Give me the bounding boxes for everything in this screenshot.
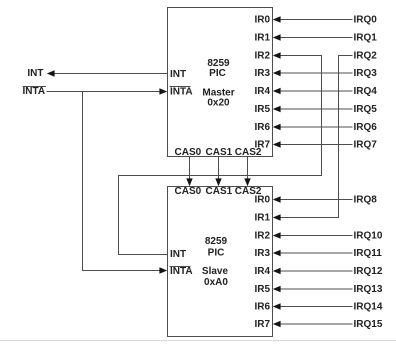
svg-text:IR3: IR3 — [254, 68, 270, 79]
svg-text:IRQ10: IRQ10 — [354, 231, 383, 242]
U1 pin labels IR0-IR7 — [254, 15, 270, 151]
svg-text:IR6: IR6 — [254, 122, 270, 133]
wire INTA from CPU to U1 with right arrowhead — [47, 88, 168, 94]
svg-text:INTA: INTA — [170, 87, 193, 98]
wire IRQ10 to U2 IR2 with arrowhead — [273, 232, 353, 238]
U1 value label 8259 PIC — [207, 58, 230, 79]
U2 pin label INTA (active low, overline) — [170, 266, 193, 277]
svg-text:CAS0: CAS0 — [175, 186, 202, 197]
U2 pin labels CAS0 CAS1 CAS2 — [175, 186, 262, 197]
svg-text:CAS1: CAS1 — [206, 147, 233, 158]
svg-text:IRQ4: IRQ4 — [354, 86, 378, 97]
svg-text:PIC: PIC — [209, 68, 226, 79]
svg-text:0x20: 0x20 — [207, 98, 230, 109]
svg-text:INT: INT — [170, 69, 186, 80]
wire IRQ4 to U1 IR4 with arrowhead — [273, 88, 353, 94]
svg-text:INTA: INTA — [170, 266, 193, 277]
svg-text:IRQ3: IRQ3 — [354, 68, 378, 79]
wire IRQ15 to U2 IR7 with arrowhead — [273, 321, 353, 327]
wire IRQ5 to U1 IR5 with arrowhead — [273, 106, 353, 112]
svg-text:IR7: IR7 — [254, 319, 270, 330]
svg-text:IRQ11: IRQ11 — [354, 248, 383, 259]
wire IRQ11 to U2 IR3 with arrowhead — [273, 250, 353, 256]
svg-text:IR2: IR2 — [254, 51, 270, 62]
wire IRQ6 to U1 IR6 with arrowhead — [273, 124, 353, 130]
wire IRQ0 to U1 IR0 with arrowhead — [273, 16, 353, 22]
svg-text:IRQ1: IRQ1 — [354, 33, 378, 44]
svg-text:IR1: IR1 — [254, 33, 270, 44]
svg-text:0xA0: 0xA0 — [204, 277, 228, 288]
wire IRQ8 to U2 IR0 with arrowhead — [273, 196, 353, 202]
wire INT from U1 to CPU with left arrowhead — [47, 70, 168, 76]
svg-text:IR5: IR5 — [254, 284, 270, 295]
svg-text:IRQ0: IRQ0 — [354, 15, 378, 26]
8259 PIC U1 Master box — [168, 8, 273, 157]
svg-text:INT: INT — [27, 68, 43, 79]
wire IRQ12 to U2 IR4 with arrowhead — [273, 268, 353, 274]
8259 PIC U2 Slave box — [168, 187, 273, 337]
svg-text:PIC: PIC — [208, 248, 225, 259]
frame border bottom — [0, 340, 396, 342]
svg-text:IR4: IR4 — [254, 266, 270, 277]
svg-text:INTA: INTA — [23, 86, 46, 97]
wire IRQ1 to U1 IR1 with arrowhead — [273, 34, 353, 40]
svg-text:Slave: Slave — [202, 266, 229, 277]
U2 value label 8259 PIC — [205, 236, 228, 259]
wire IRQ7 to U1 IR7 with arrowhead — [273, 141, 353, 147]
svg-text:IRQ14: IRQ14 — [354, 302, 383, 313]
svg-text:CAS1: CAS1 — [206, 186, 233, 197]
wire CAS2 from U1 to U2 with down arrowhead — [244, 157, 250, 186]
svg-text:CAS0: CAS0 — [175, 147, 202, 158]
svg-text:IR0: IR0 — [254, 15, 270, 26]
wire IRQ2 net down to U2 IR1 with arrowhead at U2 — [273, 56, 353, 221]
svg-text:IR1: IR1 — [254, 213, 270, 224]
U2 pin labels IR0-IR7 — [254, 195, 270, 331]
wire INTA branch to U2 with right arrowhead — [83, 92, 168, 274]
svg-text:IR6: IR6 — [254, 302, 270, 313]
svg-text:IRQ15: IRQ15 — [354, 319, 383, 330]
wire U2 INT output to U1 IR2 with left arrowhead at U1 — [119, 52, 322, 254]
svg-text:IRQ8: IRQ8 — [354, 195, 378, 206]
svg-text:CAS2: CAS2 — [235, 147, 262, 158]
wire IRQ14 to U2 IR6 with arrowhead — [273, 303, 353, 309]
svg-text:IR3: IR3 — [254, 248, 270, 259]
U2 value label Slave 0xA0 — [202, 266, 229, 288]
svg-text:IRQ2: IRQ2 — [354, 51, 378, 62]
svg-text:IR4: IR4 — [254, 86, 270, 97]
svg-text:IRQ7: IRQ7 — [354, 140, 378, 151]
U1 pin label INTA (active low, overline) — [170, 87, 193, 98]
svg-text:IRQ13: IRQ13 — [354, 284, 383, 295]
U1 value label Master 0x20 — [202, 88, 234, 109]
node label INTA (CPU side, active low, overline) — [23, 86, 47, 97]
U1 pin labels CAS0 CAS1 CAS2 — [175, 147, 262, 158]
svg-text:IRQ6: IRQ6 — [354, 122, 378, 133]
svg-text:IR0: IR0 — [254, 195, 270, 206]
svg-text:IR2: IR2 — [254, 231, 270, 242]
svg-text:IRQ12: IRQ12 — [354, 266, 383, 277]
wire CAS1 from U1 to U2 with down arrowhead — [215, 157, 221, 186]
wire IRQ13 to U2 IR5 with arrowhead — [273, 286, 353, 292]
wire IRQ3 to U1 IR3 with arrowhead — [273, 70, 353, 76]
svg-text:8259: 8259 — [205, 236, 228, 247]
svg-text:IR5: IR5 — [254, 104, 270, 115]
svg-text:INT: INT — [170, 249, 186, 260]
wire CAS0 from U1 to U2 with down arrowhead — [186, 157, 192, 186]
svg-text:IRQ5: IRQ5 — [354, 104, 378, 115]
